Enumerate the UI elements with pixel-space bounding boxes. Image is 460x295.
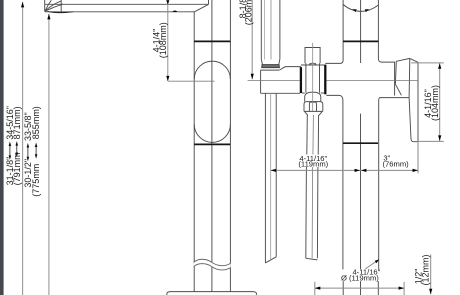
svg-text:(104mm): (104mm)	[430, 85, 440, 121]
svg-text:Ø (119mm): Ø (119mm)	[341, 273, 379, 282]
svg-text:(206mm): (206mm)	[243, 0, 253, 25]
svg-text:(12mm): (12mm)	[420, 254, 430, 285]
svg-text:(791mm: (791mm	[12, 152, 22, 185]
svg-text:871mm): 871mm)	[12, 106, 22, 139]
svg-text:855mm): 855mm)	[31, 106, 41, 139]
svg-text:(76mm): (76mm)	[383, 159, 410, 168]
svg-text:(775mm: (775mm	[31, 164, 41, 197]
svg-text:(119mm): (119mm)	[298, 160, 328, 169]
svg-text:(108mm): (108mm)	[158, 22, 168, 58]
